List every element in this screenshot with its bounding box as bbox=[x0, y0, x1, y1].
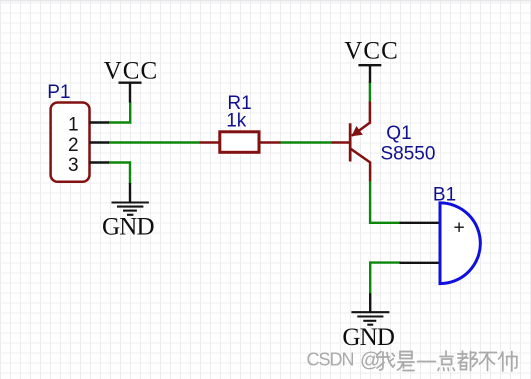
点 bbox=[438, 351, 455, 371]
svg-text:B1: B1 bbox=[433, 184, 456, 205]
是 bbox=[398, 352, 415, 371]
svg-text:CSDN: CSDN bbox=[307, 350, 355, 370]
pin 1 bbox=[68, 115, 109, 136]
svg-text:2: 2 bbox=[68, 135, 79, 156]
pin 3 bbox=[68, 155, 109, 176]
svg-text:1: 1 bbox=[68, 115, 79, 136]
power VCC (P1) bbox=[119, 83, 142, 103]
一 bbox=[418, 361, 436, 363]
svg-text:P1: P1 bbox=[47, 82, 70, 103]
我 bbox=[377, 352, 395, 371]
ground GND (right) bbox=[351, 293, 389, 324]
svg-text:Q1: Q1 bbox=[386, 123, 411, 144]
svg-text:GND: GND bbox=[342, 324, 395, 351]
svg-text:3: 3 bbox=[68, 155, 79, 176]
都 bbox=[458, 351, 477, 371]
svg-text:1k: 1k bbox=[226, 111, 247, 132]
svg-text:VCC: VCC bbox=[104, 58, 159, 85]
wire VCC to Q1 emitter bbox=[369, 82, 371, 102]
svg-text:VCC: VCC bbox=[344, 37, 399, 64]
pin 2 bbox=[68, 135, 109, 156]
wire pin2 to R1 bbox=[108, 141, 200, 143]
buzzer B1 bbox=[400, 203, 481, 284]
不 bbox=[480, 353, 497, 371]
wire Q1 collector to B1 pin 1 bbox=[370, 181, 400, 223]
connector P1 bbox=[51, 103, 90, 182]
resistor R1 bbox=[200, 132, 281, 153]
watermark CSDN bbox=[307, 350, 381, 372]
ground GND (left) bbox=[112, 183, 149, 215]
power VCC (Q1) bbox=[358, 65, 381, 83]
svg-text:S8550: S8550 bbox=[381, 144, 436, 165]
watermark chinese glyphs bbox=[377, 351, 518, 371]
wire B1 pin 2 to GND net bbox=[370, 263, 400, 295]
wire R1 to Q1 base bbox=[280, 141, 333, 143]
wire pin1 to VCC net bbox=[108, 102, 130, 123]
wire pin3 to GND net bbox=[108, 163, 130, 185]
svg-text:GND: GND bbox=[102, 214, 155, 241]
帅 bbox=[499, 352, 518, 372]
transistor Q1 bbox=[332, 102, 370, 182]
